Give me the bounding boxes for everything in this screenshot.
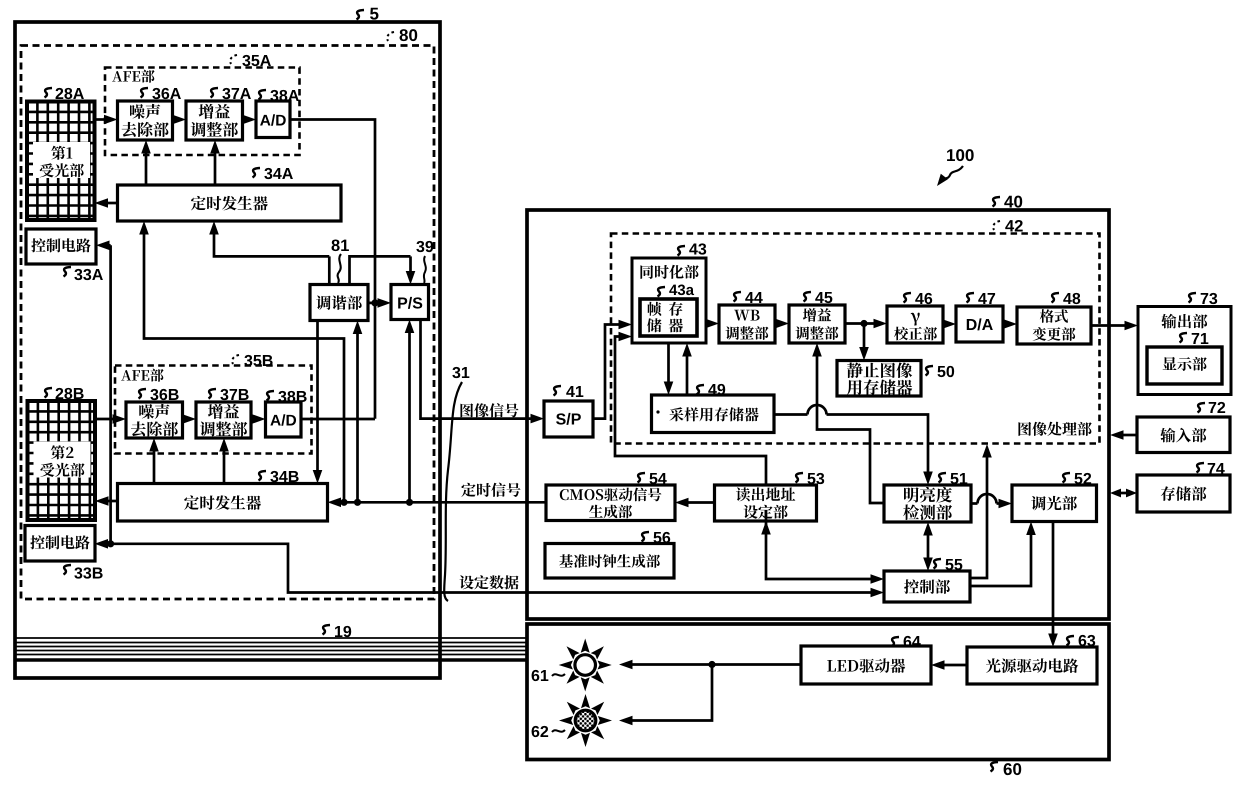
wire into P/S top [409, 256, 412, 273]
LED 61 (white light) [598, 661, 612, 670]
label 34A [253, 168, 261, 178]
label 51 [939, 473, 947, 483]
image sensor 28B [28, 401, 96, 520]
label 31 signal-cable brace [452, 367, 469, 378]
controller box 55 [884, 571, 970, 602]
label 36B [139, 389, 147, 399]
D/A box 47 [956, 306, 1003, 342]
text 38A [260, 114, 286, 126]
frame memory box 43a [640, 299, 697, 336]
label 55 [934, 559, 942, 569]
label 56 [642, 532, 650, 542]
dashed image-processing box 42 [611, 234, 1100, 444]
text 37B [208, 404, 239, 419]
text 72 [1160, 428, 1206, 443]
light source drive box 63 [967, 647, 1097, 684]
wire node to 50 [863, 324, 866, 350]
dashed imaging-section box 80 [21, 46, 434, 600]
label image processing section [1018, 422, 1091, 436]
A/D box 38A [256, 101, 290, 138]
text 36A [130, 104, 160, 119]
S/P box 41 [544, 401, 593, 437]
wire 53-55 [766, 510, 872, 579]
label 46 [904, 293, 912, 303]
wire 28B to 36B [95, 418, 114, 421]
text 33A [31, 238, 90, 252]
brightness detect box 51 [884, 485, 971, 522]
wire 38A output to node [290, 120, 375, 419]
label 45 [804, 292, 812, 302]
label 35A [230, 55, 237, 64]
text 51 [904, 487, 952, 503]
node dot timing 2 [354, 499, 361, 506]
wire stub into tuner top 2 [350, 256, 411, 284]
sampling memory box 49 [652, 395, 775, 433]
label 50 [926, 366, 934, 376]
wire 45 to 46 [845, 322, 876, 325]
node dot LED wires [708, 661, 715, 668]
still image memory box 50 [837, 361, 921, 397]
wire 48 to 73 [1091, 324, 1127, 327]
text 43 [640, 265, 698, 279]
text tuner [316, 295, 362, 310]
text 38B [270, 414, 296, 426]
label AFE(B) [121, 369, 163, 382]
text 45 [803, 308, 831, 322]
wire 49 to 43 [686, 354, 689, 395]
wire 51 to 45 control [817, 354, 884, 503]
text 36B [139, 404, 169, 419]
wire 53 to 54 [686, 501, 715, 504]
label 41 [554, 386, 562, 396]
text 34A [191, 196, 268, 211]
label 19 [323, 625, 331, 635]
wire 64 to LED61 [630, 663, 801, 666]
text 50 [847, 362, 912, 378]
label 53 [796, 473, 804, 483]
control circuit box 33B [25, 526, 95, 562]
text 73 [1161, 314, 1207, 329]
label timing signal [461, 483, 520, 497]
WB adjust box 44 [719, 305, 775, 343]
node dot after 45 [860, 320, 867, 327]
text 52 [1031, 496, 1077, 511]
label 72 [1198, 403, 1206, 413]
label 80 [387, 32, 394, 41]
text 47 [967, 318, 993, 330]
label 36A [141, 88, 149, 98]
dimming box 52 [1012, 485, 1097, 522]
CMOS drive signal box 54 [546, 485, 675, 521]
text 44 [734, 310, 759, 321]
text 55 [904, 579, 950, 594]
wire to LED62 [630, 665, 712, 721]
label 38A [259, 90, 267, 100]
dashed AFE box 35B [115, 366, 312, 454]
LED 62 (special light) [598, 716, 612, 725]
label 40 [993, 197, 1001, 207]
timing generator box 34B [118, 484, 328, 522]
label 64 [892, 637, 900, 647]
label 35B [232, 355, 239, 364]
wire tuner to P/S [368, 302, 380, 305]
wire setting data to 33B and 55 [105, 544, 872, 593]
wire 52 to 63 [1052, 522, 1055, 637]
text 37A [199, 104, 230, 119]
input box 72 [1137, 417, 1230, 453]
label AFE(A) [112, 70, 154, 83]
wire 53 to frame memory [615, 337, 766, 486]
wire 34B to 36B [153, 449, 156, 484]
tuner box 81 [310, 285, 368, 321]
node dot timing 3 [406, 499, 413, 506]
label 71 [1180, 333, 1188, 343]
cable ribbon 19 [15, 637, 527, 639]
wire 74-40 bidirectional [1119, 492, 1128, 495]
label 52 [1063, 473, 1071, 483]
label 28A [45, 88, 53, 98]
label 42 [993, 221, 1000, 230]
label 47 [967, 293, 975, 303]
label 44 [734, 292, 742, 302]
wire 51 to 52 with hop [971, 502, 978, 505]
wire 49 to 51 with hop [774, 413, 808, 416]
frame: light source box 60 [527, 624, 1109, 760]
label 62 [532, 726, 549, 737]
node dot 33 wires [107, 540, 114, 547]
readout address box 53 [715, 485, 817, 521]
label 5 [357, 10, 365, 20]
storage box 74 [1137, 475, 1230, 512]
text 46 [911, 313, 920, 326]
wire 34A to 36A [145, 151, 148, 185]
label 37B [209, 389, 217, 399]
label 34B [259, 471, 267, 481]
text 54 [560, 488, 662, 502]
label 43 [678, 246, 686, 256]
timing generator box 34A [118, 185, 342, 221]
node dot timing 1 [340, 499, 347, 506]
text 71 [1163, 357, 1207, 371]
LED driver box 64 [801, 646, 931, 684]
gain adjust box 37B [196, 402, 251, 438]
wire 34B to 37B [223, 449, 226, 484]
label 38B [267, 391, 275, 401]
wire 28A to 36A [95, 118, 107, 121]
wire 47 to 48 [1003, 323, 1006, 326]
wire 72 to 40 [1121, 434, 1137, 437]
text 64 [827, 658, 905, 673]
wire 55 to 52 [970, 533, 1031, 587]
text 49 [656, 410, 659, 413]
wire stub into tuner top 1 [328, 256, 331, 284]
text 56 [559, 554, 660, 568]
wire 34B to 28B [106, 500, 118, 503]
wire 46 to 47 [943, 323, 945, 326]
format change box 48 [1017, 307, 1091, 344]
wire timing signal 54 to 34B [342, 501, 546, 504]
label 100 with arrow [947, 149, 974, 161]
A/D box 38B [266, 402, 302, 437]
text 53 [736, 487, 795, 501]
label 39 [416, 241, 433, 252]
text S/P [556, 413, 581, 425]
wire 36B to 37B [183, 418, 186, 421]
gain adjust box 37A [186, 101, 243, 140]
wire bus y338 into 34A bottom [144, 232, 344, 502]
label setting data [460, 575, 519, 589]
wire 43 to 44 [706, 322, 708, 325]
label 54 [638, 473, 646, 483]
label image signal [460, 403, 518, 417]
P/S box 39 [391, 285, 429, 320]
frame: endoscope unit box 5 [15, 22, 440, 678]
label 28B [45, 388, 53, 398]
wire to 33A [107, 244, 111, 247]
dashed AFE box 35A [105, 68, 300, 156]
wire 36A to 37A [173, 118, 176, 121]
wire 38B output joins node line [301, 418, 375, 421]
wire tuner bottom to 34B [316, 321, 319, 473]
label 43a [658, 287, 666, 297]
wire timing bus up into tuner [356, 332, 359, 503]
frame: processor box 40 [527, 210, 1109, 619]
noise removal box 36A [118, 101, 173, 140]
wire 34A to 37A [214, 151, 217, 185]
text 33B [30, 535, 89, 549]
control circuit box 33A [26, 229, 96, 264]
node dot A/D line joins P/S input [371, 299, 378, 306]
wire 44 to 45 [775, 322, 778, 325]
wire 43 to 49 [667, 343, 670, 384]
text P/S [398, 297, 422, 309]
wire 51-55 bidirectional [927, 533, 930, 560]
text 48 [1040, 309, 1068, 323]
reference clock box 56 [545, 544, 674, 579]
label 74 [1197, 463, 1205, 473]
label 73 [1189, 293, 1197, 303]
wire S/P input corner to 43 [593, 325, 620, 419]
gain adjust box 45 [789, 305, 845, 343]
noise removal box 36B [126, 402, 183, 438]
gamma correction box 46 [887, 306, 943, 343]
synchronizer box 43 [632, 258, 706, 343]
wire 37A to 38A [243, 118, 246, 121]
image sensor 28A [27, 102, 95, 221]
display box 71 [1147, 347, 1222, 384]
text 63 [986, 658, 1078, 673]
text 43a [648, 302, 683, 316]
text 74 [1161, 486, 1207, 501]
label 60 [991, 762, 999, 772]
text 34B [184, 495, 261, 510]
label 37A [211, 88, 219, 98]
wire 63 to 64 [942, 664, 967, 667]
wire P/S out image signal [421, 320, 534, 419]
output box 73 [1138, 307, 1231, 395]
wire 34A to 28A [106, 202, 118, 205]
wire bus y256 into 34A bottom [214, 232, 329, 256]
label 48 [1052, 293, 1060, 303]
label 33A [64, 267, 72, 277]
wire 55 to box42 arrow [970, 455, 987, 578]
label 81 [332, 239, 349, 251]
label 33B [64, 565, 72, 575]
wire 37B to 38B [251, 418, 254, 421]
label 63 [1067, 636, 1075, 646]
label 49 [697, 385, 705, 395]
wire timing bus up into P/S [408, 331, 411, 503]
label 61 [532, 670, 549, 681]
